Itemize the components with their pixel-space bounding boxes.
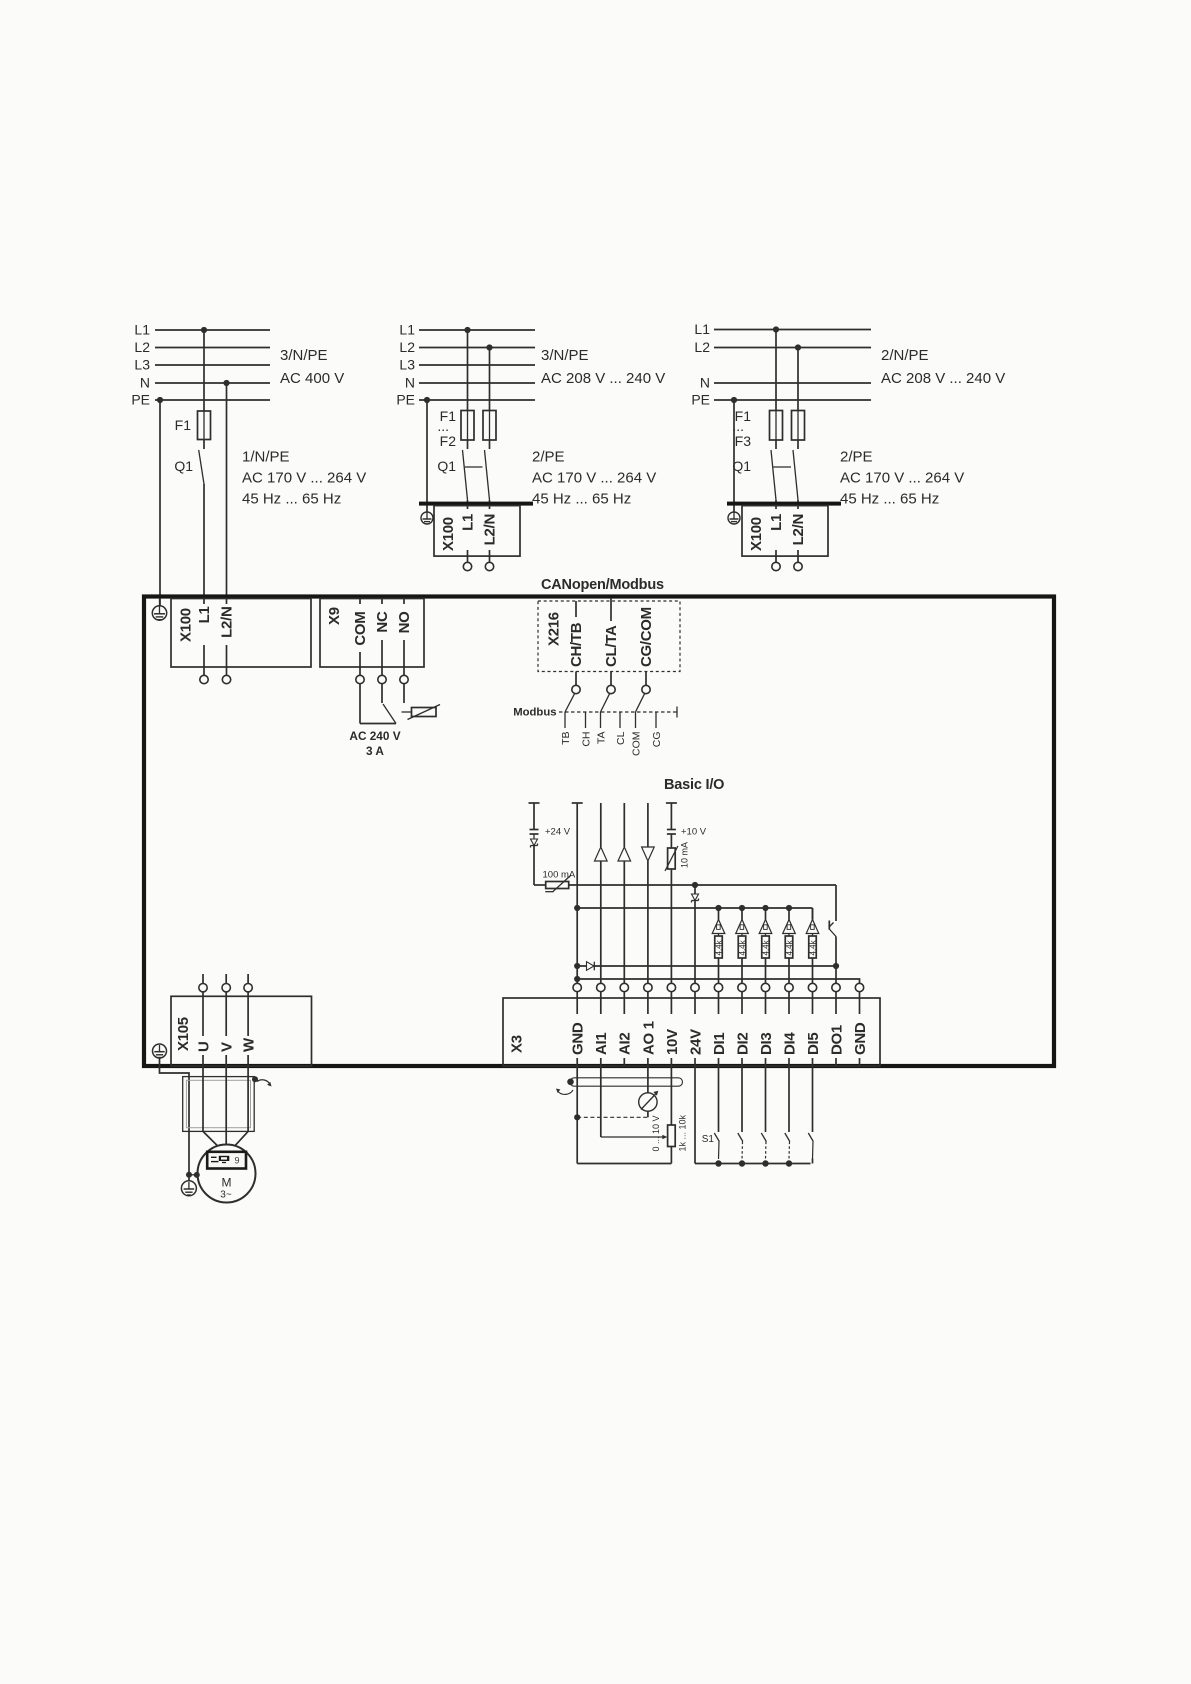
- shielded analog cable: [556, 1078, 683, 1095]
- svg-text:4.4k: 4.4k: [785, 939, 794, 955]
- svg-text:CANopen/Modbus: CANopen/Modbus: [541, 577, 664, 593]
- ground PE symbol X105: [153, 1044, 167, 1058]
- label block1 output: [242, 449, 366, 508]
- node block2 PE tap: [424, 397, 430, 403]
- svg-text:3/N/PE: 3/N/PE: [280, 347, 328, 364]
- wire V to motor: [225, 1066, 227, 1152]
- svg-text:TA: TA: [596, 732, 608, 745]
- switch Q1 block1: [174, 440, 204, 485]
- diode on GND-DO1 bus: [577, 962, 836, 971]
- svg-text:10V: 10V: [664, 1029, 681, 1055]
- ground PE symbol device corner: [152, 599, 166, 620]
- terminal X3 DO1 at x=836.0: [828, 992, 845, 1066]
- svg-text:DI5: DI5: [805, 1033, 822, 1055]
- svg-text:N: N: [405, 375, 415, 391]
- wire Modbus stub COM: [631, 712, 643, 756]
- wire block2 phase drops into X100: [467, 500, 469, 562]
- terminal X3 DI3 at x=765.5: [758, 992, 775, 1066]
- wire mains block1 N: [140, 375, 270, 391]
- wire mains block2 L1: [399, 322, 535, 338]
- svg-text:F1: F1: [175, 417, 192, 433]
- terminal X3 DI2 at x=742.0: [734, 992, 751, 1066]
- wire block1 PE to device earth: [159, 400, 161, 606]
- node block1 L1 tap: [201, 327, 207, 333]
- terminal X3 AI2 at x=624.3: [617, 992, 634, 1066]
- svg-text:X100: X100: [178, 608, 195, 642]
- terminal block X216 (CANopen/Modbus option, dashed): [538, 601, 680, 672]
- switch blade CL/TA: [601, 694, 610, 712]
- node GND / DI-bus: [574, 905, 580, 911]
- svg-text:CH: CH: [581, 732, 593, 747]
- svg-text:45 Hz ... 65 Hz: 45 Hz ... 65 Hz: [532, 491, 631, 508]
- ground PE symbol block3: [728, 512, 740, 524]
- svg-text:L1: L1: [134, 322, 150, 338]
- output transistor DO1: [829, 885, 836, 983]
- svg-text:GND: GND: [852, 1022, 869, 1055]
- svg-text:PE: PE: [396, 392, 415, 408]
- svg-text:CG: CG: [651, 732, 663, 748]
- svg-text:2/PE: 2/PE: [532, 449, 565, 466]
- node switch rail DI1: [715, 1160, 721, 1166]
- Modbus select dashed line: [559, 707, 677, 718]
- svg-text:AC 170 V ... 264 V: AC 170 V ... 264 V: [242, 470, 366, 487]
- capacitor on +24V: [530, 830, 539, 835]
- svg-text:TB: TB: [560, 732, 572, 745]
- terminal block X3: [503, 998, 880, 1066]
- digital input stage DI1: buffer + resistor 4.4k: [712, 908, 725, 983]
- motor M 3~: [198, 1145, 256, 1203]
- wire COM stub: [359, 599, 361, 676]
- terminal circles X3: [573, 983, 581, 991]
- node DI bus tap DI2: [739, 905, 745, 911]
- ground PE symbol block2: [421, 512, 433, 524]
- svg-text:AO 1: AO 1: [640, 1021, 657, 1055]
- digital input stage DI3: buffer + resistor 4.4k: [759, 908, 772, 983]
- svg-text:L3: L3: [399, 357, 415, 373]
- wire mains block2 L2: [399, 339, 535, 355]
- node switch rail DI3: [762, 1160, 768, 1166]
- node block1 N tap: [223, 380, 229, 386]
- wire mains block2 N: [405, 375, 535, 391]
- amplifier AI1: [595, 803, 608, 983]
- svg-text:L2: L2: [694, 339, 710, 355]
- svg-text:AC 208 V ... 240 V: AC 208 V ... 240 V: [541, 370, 665, 387]
- wire mains block3 L2: [694, 339, 871, 355]
- wire block3 phase drops into X100: [775, 500, 777, 562]
- switch Q1 block3 (2-pole): [732, 440, 798, 500]
- label block1 system: [280, 347, 344, 387]
- terminal circles X216: [572, 685, 580, 693]
- svg-text:NO: NO: [396, 611, 413, 634]
- switch Q1 block2 (2-pole): [437, 440, 489, 500]
- terminal block X9: [320, 599, 424, 668]
- svg-text:COM: COM: [352, 612, 369, 646]
- wire block1 L1 to device X100: [203, 484, 205, 598]
- node DI bus tap DI1: [715, 905, 721, 911]
- label block2 system: [541, 347, 665, 387]
- label AC 240 V / 3 A: [349, 729, 400, 758]
- svg-text:CH/TB: CH/TB: [568, 622, 585, 667]
- node block1 PE tap: [157, 397, 163, 403]
- zener diode at 24V terminal: [692, 885, 699, 983]
- relay actuator / load symbol: [402, 705, 441, 720]
- motor terminal box: [207, 1152, 246, 1169]
- svg-text:X100: X100: [748, 517, 765, 551]
- terminal X3 GND at x=859.5: [852, 992, 869, 1066]
- svg-text:1/N/PE: 1/N/PE: [242, 449, 290, 466]
- wire DI bus: [577, 908, 812, 920]
- svg-text:CL/TA: CL/TA: [603, 625, 620, 667]
- node block2 L1 tap: [464, 327, 470, 333]
- node block3 L1 tap: [773, 326, 779, 332]
- svg-text:X9: X9: [326, 607, 343, 625]
- wire block3 L2 drop: [797, 348, 799, 411]
- svg-text:4.4k: 4.4k: [738, 939, 747, 955]
- wire NO short stub: [403, 684, 405, 703]
- svg-text:GND: GND: [570, 1022, 587, 1055]
- svg-text:9: 9: [235, 1156, 240, 1166]
- wire mains block1 PE: [131, 392, 270, 408]
- svg-text:1k ... 10k: 1k ... 10k: [678, 1114, 688, 1151]
- terminal circles X100 device: [200, 675, 208, 683]
- node block2 L2 tap: [486, 344, 492, 350]
- svg-text:DI4: DI4: [781, 1032, 798, 1055]
- svg-text:U: U: [195, 1041, 212, 1052]
- terminal block X105: [171, 996, 312, 1066]
- motor cable shield box: [183, 1077, 255, 1132]
- wire block3 PE drop: [733, 400, 735, 512]
- wire pot bottom loop to GND: [577, 1163, 671, 1165]
- svg-text:N: N: [140, 375, 150, 391]
- svg-text:Q1: Q1: [732, 458, 751, 474]
- fuse F2 block2: [437, 408, 496, 449]
- node switch rail DI4: [786, 1160, 792, 1166]
- node GND / diode-bus: [574, 963, 580, 969]
- wire mains block3 L1: [694, 321, 871, 337]
- shield bond at cable: [252, 1076, 272, 1086]
- svg-text:...: ...: [437, 418, 449, 434]
- terminal X105 W: [241, 974, 258, 1066]
- node GND / gnd-bus: [574, 976, 580, 982]
- switch S1 pole DI5: [808, 1066, 813, 1159]
- wire block2 PE drop: [426, 400, 428, 512]
- svg-text:4.4k: 4.4k: [714, 939, 723, 955]
- terminal X105 V: [219, 974, 236, 1066]
- wire block1 L1 drop: [203, 330, 205, 411]
- svg-text:F2: F2: [440, 433, 457, 449]
- svg-text:AC 400 V: AC 400 V: [280, 370, 344, 387]
- wire 24V external drop and switch rail: [695, 1066, 811, 1164]
- terminal block X100 (device): [171, 599, 311, 668]
- internal +24V supply rail symbol: [529, 803, 540, 829]
- node DO1 / diode-bus: [833, 963, 839, 969]
- terminal X3 DI5 at x=812.5: [805, 992, 822, 1066]
- svg-text:PE: PE: [131, 392, 150, 408]
- svg-text:DI2: DI2: [734, 1033, 751, 1055]
- terminal X3 AO 1 at x=647.9: [640, 992, 657, 1066]
- svg-text:L2: L2: [134, 339, 150, 355]
- wire PE to motor: [160, 1058, 190, 1175]
- fuse F3 block3: [732, 408, 804, 449]
- svg-text:X216: X216: [546, 612, 563, 646]
- wire block2 L2 drop: [489, 348, 491, 411]
- digital input stage DI2: buffer + resistor 4.4k: [736, 908, 749, 983]
- svg-text:+24 V: +24 V: [545, 827, 571, 838]
- svg-text:+10 V: +10 V: [681, 827, 707, 838]
- relay contact wiring COM: [360, 684, 396, 724]
- node DI bus tap DI3: [762, 905, 768, 911]
- svg-text:45 Hz ... 65 Hz: 45 Hz ... 65 Hz: [242, 491, 341, 508]
- svg-text:100 mA: 100 mA: [543, 870, 576, 881]
- zener diode on +24V: [531, 834, 538, 885]
- node DI bus tap DI4: [786, 905, 792, 911]
- svg-text:L2/N: L2/N: [219, 607, 236, 638]
- terminal circles block2: [463, 562, 471, 570]
- wire CH/TB stub: [575, 601, 577, 617]
- amplifier AI2: [618, 803, 631, 983]
- svg-text:Q1: Q1: [437, 458, 456, 474]
- switch blade CG/COM: [636, 694, 645, 712]
- svg-text:AC 240 V: AC 240 V: [349, 729, 400, 743]
- terminal X3 DI4 at x=789.0: [781, 992, 798, 1066]
- svg-text:AC 170 V ... 264 V: AC 170 V ... 264 V: [840, 470, 964, 487]
- wire Modbus stub TB: [560, 712, 572, 745]
- svg-text:L2/N: L2/N: [482, 514, 499, 545]
- svg-text:N: N: [700, 375, 710, 391]
- node GND / meter dashed link: [574, 1114, 580, 1120]
- svg-text:4.4k: 4.4k: [808, 939, 817, 955]
- svg-text:DO1: DO1: [828, 1025, 845, 1055]
- amplifier AO1 (down): [642, 803, 655, 983]
- terminal circles X9: [356, 675, 364, 683]
- wire U to motor: [203, 1066, 218, 1152]
- node block3 PE tap: [731, 397, 737, 403]
- wire L2/N through X100: [226, 599, 228, 676]
- svg-text:L1: L1: [399, 322, 415, 338]
- svg-text:24V: 24V: [687, 1029, 704, 1055]
- wire Modbus stub CG: [651, 712, 663, 747]
- node block3 L2 tap: [795, 344, 801, 350]
- svg-text:3 A: 3 A: [366, 744, 384, 758]
- svg-text:0 ... 10 V: 0 ... 10 V: [651, 1115, 661, 1151]
- terminal X105 U: [195, 974, 212, 1066]
- wire GND external drop: [576, 1066, 578, 1164]
- svg-text:AI2: AI2: [617, 1033, 634, 1055]
- svg-text:L3: L3: [134, 357, 150, 373]
- label block3 output: [840, 449, 964, 508]
- wire NC stub: [381, 599, 383, 676]
- svg-text:X105: X105: [175, 1017, 192, 1051]
- svg-text:2/N/PE: 2/N/PE: [881, 347, 929, 364]
- svg-text:AC 170 V ... 264 V: AC 170 V ... 264 V: [532, 470, 656, 487]
- meter on AO1 (voltmeter): [639, 1066, 659, 1117]
- svg-text:X100: X100: [440, 517, 457, 551]
- svg-text:W: W: [241, 1037, 258, 1052]
- wire mains block1 L3: [134, 357, 270, 373]
- svg-text:PE: PE: [691, 392, 710, 408]
- wire GND bus to right GND terminal: [577, 979, 859, 983]
- wire NO stub: [403, 599, 405, 676]
- svg-text:AI1: AI1: [593, 1033, 610, 1055]
- svg-text:AC 208 V ... 240 V: AC 208 V ... 240 V: [881, 370, 1005, 387]
- wire Modbus stub TA: [596, 712, 608, 744]
- earth ground symbol at motor: [181, 1175, 196, 1196]
- svg-text:L1: L1: [460, 514, 477, 531]
- svg-text:NC: NC: [374, 611, 391, 633]
- current limiter 10 mA: [665, 834, 690, 983]
- label block2 output: [532, 449, 656, 508]
- wire Modbus stub CH: [581, 712, 593, 747]
- wire rail corner up to DI5 blade: [812, 1159, 814, 1164]
- wire Modbus stub CL: [615, 712, 627, 745]
- internal +10V supply rail symbol: [666, 803, 677, 829]
- svg-text:CL: CL: [615, 731, 627, 745]
- svg-text:4.4k: 4.4k: [761, 939, 770, 955]
- svg-text:L1: L1: [694, 321, 710, 337]
- svg-text:10 mA: 10 mA: [680, 842, 690, 868]
- svg-text:3~: 3~: [220, 1190, 232, 1201]
- wire mains block2 L3: [399, 357, 535, 373]
- wire block3 L1 drop: [775, 330, 777, 411]
- digital input stage DI4: buffer + resistor 4.4k: [783, 908, 796, 983]
- fuse 100 mA (PTC): [534, 870, 576, 892]
- wire GND column: [572, 803, 583, 983]
- label block3 system: [881, 347, 1005, 387]
- node 24V rail at 24V terminal: [692, 882, 698, 888]
- wire mains block1 L2: [134, 339, 270, 355]
- svg-text:2/PE: 2/PE: [840, 449, 873, 466]
- wire CL/TA stub: [610, 598, 612, 621]
- terminal X3 AI1 at x=600.8: [593, 992, 610, 1066]
- wire W to motor: [235, 1066, 248, 1152]
- wire block2 L1 drop: [467, 330, 469, 411]
- wire L1 through X100: [203, 599, 205, 676]
- svg-text:V: V: [219, 1042, 236, 1052]
- terminal X3 DI1 at x=718.5: [711, 992, 728, 1066]
- wire mains block2 PE: [396, 392, 535, 408]
- svg-text:Modbus: Modbus: [513, 707, 556, 719]
- wire mains block1 L1: [134, 322, 270, 338]
- switch S1 pole DI2: [738, 1066, 743, 1159]
- node switch rail DI2: [739, 1160, 745, 1166]
- switch S1 pole DI1: [714, 1066, 719, 1159]
- device enclosure box: [144, 597, 1054, 1067]
- wire block1 N to device X100: [226, 383, 228, 598]
- wire 24V rail: [569, 884, 836, 886]
- svg-text:S1: S1: [702, 1134, 715, 1145]
- terminal X3 24V at x=695.0: [687, 992, 704, 1066]
- wire mains block3 N: [700, 375, 871, 391]
- switch S1 pole DI4: [785, 1066, 790, 1159]
- svg-text:Q1: Q1: [174, 458, 193, 474]
- svg-text:DI1: DI1: [711, 1033, 728, 1055]
- svg-text:CG/COM: CG/COM: [638, 607, 655, 667]
- svg-text:X3: X3: [509, 1035, 526, 1053]
- terminal circles block3: [772, 562, 780, 570]
- svg-text:COM: COM: [631, 732, 643, 757]
- svg-text:L2: L2: [399, 339, 415, 355]
- svg-text:45 Hz ... 65 Hz: 45 Hz ... 65 Hz: [840, 491, 939, 508]
- terminal X3 GND at x=577.2: [570, 992, 587, 1066]
- svg-text:L1: L1: [768, 514, 785, 531]
- svg-text:F3: F3: [735, 433, 752, 449]
- potentiometer 1k...10k on 10V: [651, 1066, 688, 1164]
- switch S1 pole DI3: [761, 1066, 766, 1159]
- relay blade NC: [382, 684, 396, 724]
- switch blade CH/TB: [565, 694, 575, 712]
- svg-text:L1: L1: [196, 607, 213, 624]
- wire mains block3 PE: [691, 392, 871, 408]
- svg-text:M: M: [222, 1176, 232, 1190]
- terminal X3 10V at x=671.4: [664, 992, 681, 1066]
- fuse F1 block1: [175, 411, 211, 440]
- svg-text:DI3: DI3: [758, 1033, 775, 1055]
- svg-text:3/N/PE: 3/N/PE: [541, 347, 589, 364]
- digital input stage DI5: buffer + resistor 4.4k: [806, 908, 819, 983]
- terminal block X100 of block2 with mounting bar: [419, 502, 533, 556]
- svg-text:Basic I/O: Basic I/O: [664, 777, 724, 793]
- wire X216 stubs to terminals: [575, 672, 577, 686]
- capacitor on +10V: [667, 830, 676, 835]
- potentiometer wiper from AI1: [601, 1066, 668, 1139]
- svg-text:L2/N: L2/N: [790, 514, 807, 545]
- node PE at motor: [186, 1172, 200, 1178]
- terminal block X100 of block3 with mounting bar: [727, 502, 841, 556]
